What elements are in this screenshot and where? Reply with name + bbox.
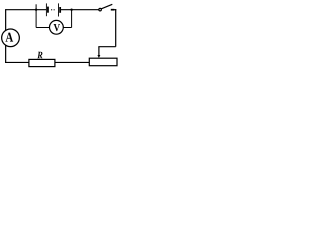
wire bottom-left horizontal [5,61,29,63]
rheostat slider arrowhead [97,55,100,58]
junction node dot right [70,9,72,11]
rheostat box [89,58,117,65]
wire right horizontal mid [98,46,115,48]
ammeter A1 circle [2,29,20,47]
voltmeter right tap wire vertical [71,10,73,28]
switch to corner wire [114,9,116,11]
voltmeter left wire [36,27,49,29]
switch S1 fixed contact wire [111,9,115,11]
ammeter A1 label [5,33,13,42]
battery dash 1 [51,9,52,11]
resistor R label [37,52,42,58]
wire bottom middle horizontal [55,61,89,63]
resistor R box [29,59,55,66]
battery cell 1 short thick plate [47,7,49,13]
wire top middle horizontal [61,9,99,11]
battery cell 2 long plate [58,3,60,16]
battery cell 1 long plate [45,3,47,16]
wire top-left horizontal [6,9,47,11]
wire left vertical upper [5,9,7,31]
rheostat slider arrow shaft [98,47,100,56]
wire left vertical lower [5,45,7,62]
wire right vertical [115,9,117,47]
switch S1 lever [101,4,112,9]
battery left long plate / voltmeter tap wire [35,4,37,27]
battery cell 2 short thick plate [59,7,61,13]
voltmeter V1 circle [50,20,64,34]
voltmeter V1 label [54,24,60,31]
junction node dot left [35,9,37,11]
battery dash 2 [54,9,55,11]
switch S1 pivot circle [99,8,102,11]
voltmeter right wire [63,27,71,29]
